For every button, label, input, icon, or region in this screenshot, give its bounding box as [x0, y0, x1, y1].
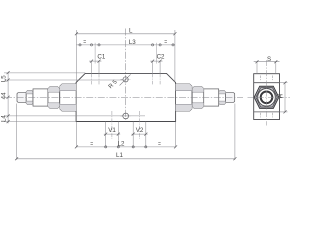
dim line L3: [76, 44, 174, 46]
V1 port: [105, 122, 107, 148]
dim L extension left: [75, 30, 77, 82]
dim H: [280, 82, 288, 84]
svg-text:L5: L5: [0, 75, 7, 82]
bottom hole circle: [123, 113, 129, 119]
svg-text:L2: L2: [118, 140, 125, 147]
svg-text:=: =: [164, 40, 167, 46]
dim C1: [94, 43, 96, 64]
svg-text:L1: L1: [116, 152, 123, 159]
side view centerlines: [266, 60, 268, 126]
side view hex nut outer: [254, 86, 279, 108]
dim C2: [155, 43, 157, 64]
dim L extension right: [174, 30, 176, 82]
wire main horizontal centerline: [5, 97, 243, 99]
left dim vertical line: [7, 72, 9, 123]
side view hex nut inner: [256, 88, 277, 107]
svg-text:L3: L3: [129, 39, 136, 46]
cartridge left: [17, 84, 76, 111]
svg-text:H: H: [278, 94, 285, 98]
V2 port: [132, 122, 134, 148]
side view washer circle: [258, 89, 276, 107]
dim L1: [16, 104, 18, 160]
left dim extensions: [4, 72, 85, 74]
cartridge right (mirrored): [176, 84, 235, 111]
side view hole marks: [260, 76, 262, 82]
svg-text:=: =: [90, 142, 93, 148]
dim S: [256, 62, 258, 74]
top hole circle: [123, 77, 128, 82]
svg-text:V1: V1: [108, 127, 116, 134]
svg-text:C2: C2: [157, 53, 165, 60]
side view screw ring: [261, 92, 273, 104]
body interior step line: [76, 115, 145, 117]
side view outline: [254, 74, 280, 120]
svg-text:V2: V2: [136, 127, 144, 134]
svg-text:L4: L4: [0, 115, 7, 122]
svg-text:S: S: [267, 56, 271, 63]
dim L2: [75, 122, 77, 148]
svg-text:=: =: [83, 40, 86, 46]
dim line L: [76, 33, 174, 35]
node body vertical centerline: [125, 29, 127, 122]
svg-text:44: 44: [0, 92, 7, 99]
side view face lines: [254, 82, 280, 84]
hole centre extension line: [4, 79, 123, 81]
leader R 5: [120, 74, 131, 85]
valve body outline: [76, 73, 176, 121]
svg-text:C1: C1: [97, 53, 105, 60]
svg-text:=: =: [158, 142, 161, 148]
svg-text:L: L: [129, 27, 133, 34]
